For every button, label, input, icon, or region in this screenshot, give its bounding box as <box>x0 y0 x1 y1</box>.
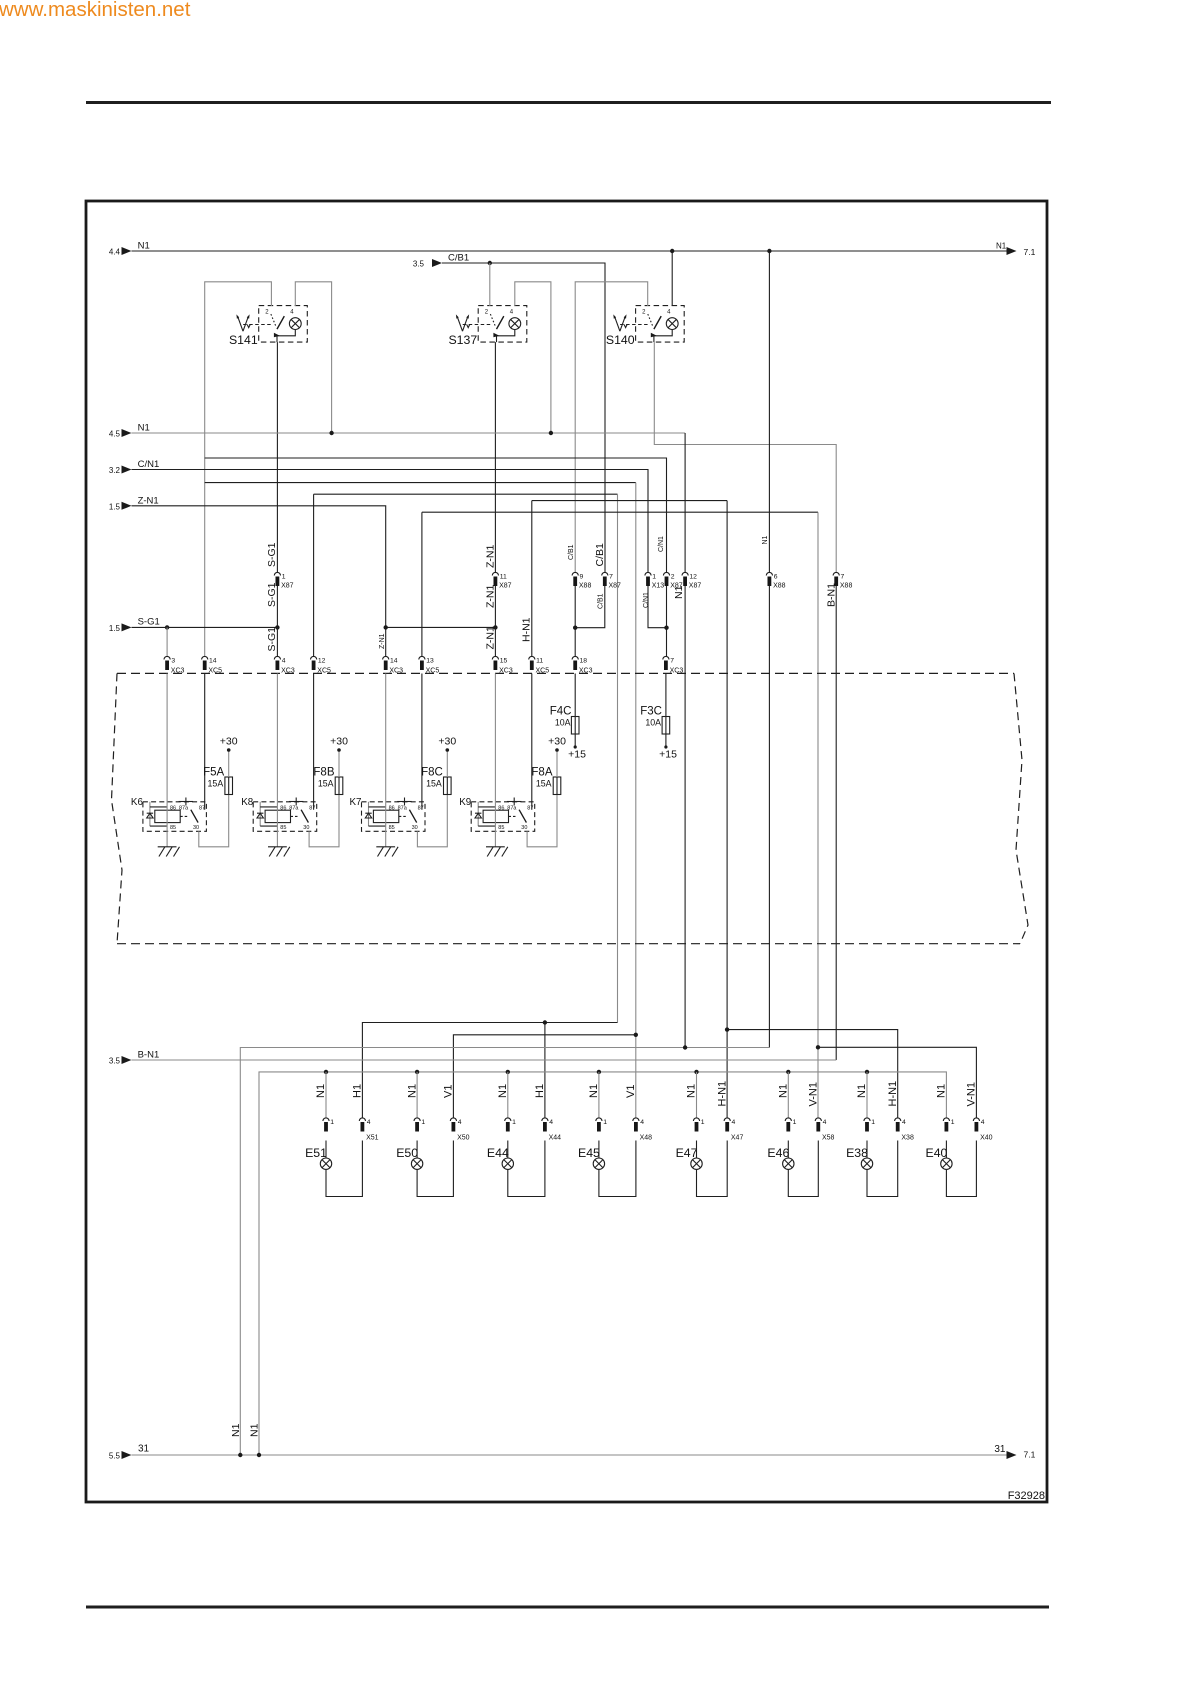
node C/N1 column join <box>664 626 668 630</box>
connector E45 pin4 X48 <box>633 1118 652 1142</box>
net label Z-N1 at XC3 pin14 <box>379 633 386 649</box>
svg-text:E47: E47 <box>676 1146 698 1160</box>
svg-text:N1: N1 <box>856 1084 868 1098</box>
net label V-N1 at E46 <box>808 1082 820 1106</box>
svg-text:4.5: 4.5 <box>109 430 121 439</box>
top horizontal rule <box>86 101 1051 104</box>
svg-text:85: 85 <box>498 825 504 831</box>
wire B-N1 X88 pin7 down to B-N1 bus <box>835 586 837 1060</box>
wire S141 lamp to N1 <box>295 282 331 433</box>
svg-text:87a: 87a <box>289 805 299 811</box>
arrow 3.2 C/N1 <box>109 459 159 475</box>
svg-text:4.4: 4.4 <box>109 248 121 257</box>
svg-text:1: 1 <box>793 1119 797 1126</box>
wire +30 supply to F8C <box>446 748 450 777</box>
svg-text:4: 4 <box>367 1119 371 1126</box>
ground symbol K9 <box>486 847 508 857</box>
wire K9 contact output (H-N1) over to lamp area <box>532 501 727 1118</box>
arrow 1.5 Z-N1 <box>109 496 159 512</box>
svg-text:15A: 15A <box>536 778 552 788</box>
wire 31 bus <box>132 1454 1007 1456</box>
svg-text:X58: X58 <box>822 1135 835 1142</box>
net label N1 left feeder <box>230 1423 242 1437</box>
svg-text:X38: X38 <box>901 1135 914 1142</box>
svg-text:N1: N1 <box>936 1084 948 1098</box>
connector E51 pin4 X51 <box>359 1118 378 1142</box>
node Z-N1/XC3 pin14 column <box>384 625 388 629</box>
node N1 bus at E38 <box>865 1070 869 1074</box>
svg-text:F5A: F5A <box>203 767 224 779</box>
lamp E40 <box>926 1146 953 1169</box>
svg-text:X51: X51 <box>366 1135 379 1142</box>
wire K8 coil to ground <box>276 674 278 847</box>
fuse F8B 15A <box>313 767 342 796</box>
connector XC5 pin14 <box>202 656 223 674</box>
wire E38 lamp loop <box>867 1141 898 1197</box>
svg-text:30: 30 <box>521 825 527 831</box>
wire X87 pin7 jog to XC3 pin18 column <box>575 586 605 628</box>
svg-text:1: 1 <box>421 1119 425 1126</box>
connector X87 pin12 <box>682 572 701 589</box>
svg-text:4: 4 <box>902 1119 906 1126</box>
svg-text:87a: 87a <box>398 805 408 811</box>
wire S137 lamp to N1 <box>515 282 551 433</box>
wire K7 pin87 feed stub <box>421 674 423 810</box>
wire K9 pin30 to fuse <box>527 795 557 847</box>
svg-text:S-G1: S-G1 <box>266 582 278 607</box>
connector E50 pin1 <box>414 1118 425 1132</box>
connector X13 pin1 <box>645 572 664 589</box>
svg-text:10A: 10A <box>555 717 571 727</box>
svg-text:14: 14 <box>390 658 398 665</box>
connector XC3 pin18 <box>572 656 593 674</box>
connector E44 pin4 X44 <box>542 1118 561 1142</box>
net label V1 at E45 <box>625 1085 637 1098</box>
svg-text:7.1: 7.1 <box>1024 1450 1036 1460</box>
node C/B1 to S137 junction <box>488 261 492 265</box>
svg-text:www.maskinisten.net: www.maskinisten.net <box>0 0 191 21</box>
wire N1 X87 pin12 down to bottom bus <box>684 586 686 1048</box>
net label N1 below X87 pin12 <box>673 585 685 599</box>
connector E40 pin4 X40 <box>973 1118 992 1142</box>
node N1 bus at E50 <box>415 1070 419 1074</box>
wire E40 lamp loop <box>946 1141 976 1197</box>
wire K7 contact output (V-N1) over to lamp area <box>422 512 818 1118</box>
node V1 branch <box>634 1033 638 1037</box>
wire F4C to +15 <box>574 674 577 749</box>
connector XC3 pin7 <box>663 656 684 674</box>
wire K7 coil to ground <box>385 674 387 847</box>
svg-text:87a: 87a <box>507 805 517 811</box>
connector XC3 pin14 <box>383 656 404 674</box>
wire C/B1 bus <box>442 263 605 573</box>
svg-text:11: 11 <box>536 658 543 665</box>
net label C/N1 above X13 pin1 <box>658 536 665 552</box>
svg-text:N1: N1 <box>497 1084 509 1098</box>
svg-text:87: 87 <box>527 805 533 811</box>
svg-text:7: 7 <box>670 658 674 665</box>
switch S141 (with indicator lamp) <box>229 306 307 347</box>
svg-text:87: 87 <box>418 805 424 811</box>
net label H1 at E51 <box>352 1084 364 1098</box>
net label N1 at E50 <box>406 1084 418 1098</box>
net label Z-N1 at XC3 pin15 <box>484 626 496 649</box>
svg-text:6: 6 <box>774 574 778 581</box>
wire N1 4.5 bus <box>132 432 686 434</box>
net label N1 right feeder <box>249 1423 261 1437</box>
svg-text:7: 7 <box>609 574 613 581</box>
svg-text:N1: N1 <box>138 423 150 434</box>
svg-text:86: 86 <box>389 805 395 811</box>
net label C/N1 below X13 pin1 <box>643 592 650 608</box>
svg-text:4: 4 <box>732 1119 736 1126</box>
svg-text:B-N1: B-N1 <box>138 1050 160 1061</box>
svg-text:N1: N1 <box>762 535 769 544</box>
node N1 bus at E44 <box>506 1070 510 1074</box>
svg-text:C/B1: C/B1 <box>568 544 575 560</box>
svg-text:H1: H1 <box>534 1084 546 1098</box>
svg-text:4: 4 <box>458 1119 462 1126</box>
node N1 bus at E51 <box>324 1070 328 1074</box>
wire +30 supply to F8A <box>555 748 559 777</box>
net label C/B1 above X87 pin7 <box>594 543 606 567</box>
svg-text:S-G1: S-G1 <box>138 616 160 627</box>
wire H-N1 distribution <box>727 1030 898 1118</box>
wire +30 supply to F8B <box>337 748 341 777</box>
net label N1 at E45 <box>588 1084 600 1098</box>
node 31/N1 feeder <box>238 1453 242 1457</box>
connector XC3 pin15 <box>492 656 513 674</box>
arrow 1.5 S-G1 <box>109 616 160 633</box>
svg-text:H-N1: H-N1 <box>887 1081 899 1107</box>
svg-text:H-N1: H-N1 <box>521 617 533 642</box>
connector E45 pin1 <box>596 1118 607 1132</box>
svg-text:V1: V1 <box>625 1085 637 1098</box>
svg-text:N1: N1 <box>230 1423 242 1437</box>
svg-text:X88: X88 <box>579 583 592 590</box>
net label N1 at E47 <box>686 1084 698 1098</box>
wire N1 stub to E51 pin1 <box>325 1072 327 1118</box>
svg-text:7: 7 <box>841 574 845 581</box>
svg-text:4: 4 <box>823 1119 827 1126</box>
wire X88 pin9 down to XC3 pin18 <box>574 586 576 657</box>
svg-text:Z-N1: Z-N1 <box>484 626 496 649</box>
wire Z-N1 link bus <box>386 626 496 628</box>
svg-text:+30: +30 <box>438 736 456 748</box>
relay K6 <box>131 797 206 831</box>
svg-text:Z-N1: Z-N1 <box>138 496 159 507</box>
wire S141 pin2 feed loop to XC5 pin14 column <box>205 282 272 657</box>
lamp E50 <box>396 1146 423 1169</box>
svg-text:C/N1: C/N1 <box>643 592 650 608</box>
svg-text:12: 12 <box>689 574 697 581</box>
net label H-N1 above XC5 pin11 <box>521 617 533 642</box>
diagram border frame <box>86 201 1047 1502</box>
label +30 at F5A <box>220 736 238 748</box>
connector E40 pin1 <box>943 1118 954 1132</box>
wire S-G1 branch down to XC3 pin3 <box>166 627 168 656</box>
wire S140 pin3 to X88 pin7 <box>654 342 836 572</box>
svg-text:N1: N1 <box>588 1084 600 1098</box>
lamp E47 <box>676 1146 703 1169</box>
net label H-N1 at E38 <box>887 1081 899 1107</box>
wire N1 stub to E47 pin1 <box>696 1072 698 1118</box>
svg-text:1: 1 <box>871 1119 875 1126</box>
node N1 bus at E45 <box>597 1070 601 1074</box>
svg-text:Z-N1: Z-N1 <box>484 585 496 608</box>
connector X88 pin7 <box>833 572 852 589</box>
wire N1 top bus down through X88 pin6 <box>768 251 770 1048</box>
svg-text:13: 13 <box>426 658 434 665</box>
svg-text:4: 4 <box>981 1119 985 1126</box>
svg-text:86: 86 <box>280 805 286 811</box>
svg-text:X87: X87 <box>689 583 702 590</box>
svg-text:S-G1: S-G1 <box>266 542 278 567</box>
svg-text:+15: +15 <box>659 749 677 761</box>
wire K6 coil to ground <box>166 674 168 847</box>
fuse F5A 15A <box>203 767 232 796</box>
lamp E46 <box>767 1146 794 1169</box>
fuse F4C 10A <box>550 706 579 735</box>
label +30 at F8B <box>330 736 348 748</box>
wire V1 distribution <box>453 1035 635 1118</box>
net label S-G1 below bus <box>266 627 278 652</box>
connector E46 pin1 <box>785 1118 796 1132</box>
svg-text:85: 85 <box>280 825 286 831</box>
lamp E51 <box>305 1146 332 1169</box>
svg-text:+30: +30 <box>220 736 238 748</box>
svg-text:86: 86 <box>498 805 504 811</box>
wire N1 stub to E44 pin1 <box>507 1072 509 1118</box>
svg-text:X88: X88 <box>840 583 853 590</box>
svg-text:1: 1 <box>282 574 286 581</box>
svg-text:E38: E38 <box>846 1146 868 1160</box>
wire S141 output to X87 pin2 <box>205 458 667 573</box>
connector E50 pin4 X50 <box>450 1118 469 1142</box>
svg-text:C/B1: C/B1 <box>598 593 605 609</box>
wire N1 stub to E46 pin1 <box>787 1072 789 1118</box>
svg-text:C/B1: C/B1 <box>448 253 469 264</box>
svg-text:1: 1 <box>512 1119 516 1126</box>
lamp E44 <box>487 1146 514 1169</box>
wire S137 pin3 down to X87 pin11 <box>494 342 496 572</box>
svg-text:18: 18 <box>580 658 588 665</box>
svg-text:V-N1: V-N1 <box>966 1082 978 1106</box>
svg-text:C/N1: C/N1 <box>658 536 665 552</box>
svg-text:X40: X40 <box>980 1135 993 1142</box>
svg-text:F32928: F32928 <box>1008 1490 1045 1502</box>
svg-text:3.5: 3.5 <box>109 1057 121 1066</box>
label +15 at F4C <box>568 749 586 761</box>
svg-text:12: 12 <box>318 658 326 665</box>
connector X87 pin7 <box>602 572 621 589</box>
svg-text:F8A: F8A <box>531 767 552 779</box>
svg-text:3: 3 <box>171 658 175 665</box>
connector XC3 pin3 <box>164 656 185 674</box>
wire K9 coil to ground <box>494 674 496 847</box>
svg-text:4: 4 <box>640 1119 644 1126</box>
svg-text:Z-N1: Z-N1 <box>379 633 386 649</box>
svg-text:85: 85 <box>389 825 395 831</box>
node N1/S140 lamp <box>670 249 674 253</box>
svg-text:K8: K8 <box>241 797 254 808</box>
svg-text:N1: N1 <box>778 1084 790 1098</box>
net label S-G1 above X87 pin1 <box>266 542 278 567</box>
svg-text:15A: 15A <box>318 778 334 788</box>
svg-text:H-N1: H-N1 <box>716 1081 728 1107</box>
svg-text:30: 30 <box>193 825 199 831</box>
node H1 branch E44 <box>543 1020 547 1024</box>
svg-text:B-N1: B-N1 <box>825 583 837 607</box>
wire K8 contact output (H1) over to lamp area <box>314 494 618 1022</box>
wire N1 stub to E50 pin1 <box>416 1072 418 1118</box>
node N1 bus at E47 <box>694 1070 698 1074</box>
connector E38 pin4 X38 <box>895 1118 914 1142</box>
connector E46 pin4 X58 <box>815 1118 834 1142</box>
svg-text:E45: E45 <box>578 1146 600 1160</box>
net label N1 at E51 <box>315 1084 327 1098</box>
svg-text:1: 1 <box>603 1119 607 1126</box>
ground symbol K8 <box>268 847 290 857</box>
net label N1 at E44 <box>497 1084 509 1098</box>
connector E47 pin1 <box>693 1118 704 1132</box>
relay K7 <box>350 797 425 831</box>
wire E45 lamp loop <box>599 1141 636 1197</box>
svg-text:X50: X50 <box>457 1135 470 1142</box>
node N1 feeder/X87 pin12 <box>683 1045 687 1049</box>
net label Z-N1 above X87 pin11 <box>484 545 496 568</box>
wire H1 distribution <box>362 1023 617 1119</box>
svg-text:N1: N1 <box>138 241 150 252</box>
dashed boundary (left edge) <box>112 673 123 943</box>
svg-text:F4C: F4C <box>550 706 572 718</box>
svg-text:4: 4 <box>549 1119 553 1126</box>
label +30 at F8C <box>438 736 456 748</box>
bottom horizontal rule <box>86 1606 1049 1609</box>
wire N1 top bus (4.4 to 7.1) <box>132 250 1007 252</box>
connector X88 pin6 <box>766 572 785 589</box>
svg-text:15A: 15A <box>208 778 224 788</box>
svg-text:E46: E46 <box>767 1146 789 1160</box>
wire S137 pin2 feed from C/B1 <box>489 263 491 306</box>
header watermark www.maskinisten.net <box>0 0 191 21</box>
connector X87 pin1 <box>274 572 293 589</box>
switch S137 (with indicator lamp) <box>448 306 526 347</box>
connector E51 pin1 <box>323 1118 334 1132</box>
svg-text:1.5: 1.5 <box>109 624 121 633</box>
wire X87 pin2 down to XC3 pin7 <box>666 586 668 657</box>
connector E44 pin1 <box>505 1118 516 1132</box>
svg-text:N1: N1 <box>686 1084 698 1098</box>
svg-text:14: 14 <box>209 658 217 665</box>
svg-text:N1: N1 <box>996 242 1007 251</box>
svg-text:F3C: F3C <box>640 706 662 718</box>
svg-text:9: 9 <box>580 574 584 581</box>
wire E46 lamp loop <box>788 1141 818 1197</box>
net label H1 at E44 <box>534 1084 546 1098</box>
connector XC5 pin13 <box>419 656 440 674</box>
net label N1 at E40 <box>936 1084 948 1098</box>
wire E51 lamp loop <box>326 1141 362 1197</box>
arrow N1 7.1 (right) <box>996 242 1036 258</box>
fuse F8C 15A <box>421 767 451 796</box>
arrow 3.5 B-N1 <box>109 1050 159 1066</box>
svg-text:87: 87 <box>309 805 315 811</box>
wire E50 lamp loop <box>417 1141 453 1197</box>
svg-text:K7: K7 <box>350 797 362 808</box>
svg-text:15A: 15A <box>426 778 442 788</box>
svg-text:4: 4 <box>282 658 286 665</box>
net label S-G1 below X87 pin1 <box>266 582 278 607</box>
wire S140 lamp to N1 top bus <box>671 251 673 306</box>
wire K6 pin87 feed stub <box>204 674 206 810</box>
wire K8 pin87 feed stub <box>313 674 315 810</box>
svg-text:10A: 10A <box>645 717 661 727</box>
svg-text:85: 85 <box>170 825 176 831</box>
svg-text:15: 15 <box>500 658 508 665</box>
svg-text:Z-N1: Z-N1 <box>484 545 496 568</box>
svg-text:S-G1: S-G1 <box>266 627 278 652</box>
svg-text:N1: N1 <box>406 1084 418 1098</box>
svg-text:3.5: 3.5 <box>413 260 425 269</box>
arrow 4.4 N1 (left) <box>109 241 150 257</box>
net label N1 at E38 <box>856 1084 868 1098</box>
relay K8 <box>241 797 316 831</box>
svg-text:+30: +30 <box>548 736 566 748</box>
svg-text:E51: E51 <box>305 1146 327 1160</box>
wire X13 pin1 jog to XC3 pin7 column <box>648 586 667 628</box>
svg-text:87a: 87a <box>179 805 189 811</box>
arrow 31 7.1 (right) <box>994 1444 1035 1460</box>
node N1/S141 lamp <box>329 431 333 435</box>
wire X87 pin11 down to XC3 pin15 <box>494 586 496 657</box>
connector XC5 pin11 <box>529 656 550 674</box>
wire K9 pin87 feed stub <box>531 674 533 810</box>
svg-text:S137: S137 <box>448 333 477 347</box>
switch S140 (with indicator lamp) <box>606 306 684 347</box>
node N1 at top bus/X88 pin6 <box>767 249 771 253</box>
svg-text:N1: N1 <box>249 1423 261 1437</box>
node C/B1 column join <box>573 626 577 630</box>
wire S-G1 bus <box>132 626 278 628</box>
drawing number F32928 <box>1008 1490 1045 1502</box>
net label B-N1 below X88 pin7 <box>825 583 837 607</box>
svg-text:F8C: F8C <box>421 767 443 779</box>
wire K8 pin30 to fuse <box>309 795 339 847</box>
wire N1 down to X87 pin12 <box>684 433 686 573</box>
svg-text:E50: E50 <box>396 1146 418 1160</box>
ground symbol K6 <box>158 847 180 857</box>
svg-text:C/B1: C/B1 <box>594 543 606 567</box>
svg-text:7.1: 7.1 <box>1024 247 1036 257</box>
svg-text:H1: H1 <box>352 1084 364 1098</box>
node Z-N1/X87 pin11 column <box>493 625 497 629</box>
dashed boundary (bottom) <box>117 943 1020 945</box>
svg-text:3.2: 3.2 <box>109 466 121 475</box>
wire S141 pin3 down to X87 pin1 <box>276 342 278 572</box>
svg-text:1: 1 <box>652 574 656 581</box>
wire K6 contact output (V1) over to lamp area <box>205 483 636 1118</box>
svg-text:N1: N1 <box>315 1084 327 1098</box>
arrow 3.5 C/B1 <box>413 253 469 269</box>
arrow 4.5 N1 <box>109 423 150 439</box>
node H-N1 branch <box>725 1027 729 1031</box>
node N1/S137 lamp <box>549 431 553 435</box>
svg-text:X13: X13 <box>652 583 665 590</box>
wire E44 lamp loop <box>508 1141 545 1197</box>
svg-text:+30: +30 <box>330 736 348 748</box>
wire E47 lamp loop <box>697 1141 728 1197</box>
